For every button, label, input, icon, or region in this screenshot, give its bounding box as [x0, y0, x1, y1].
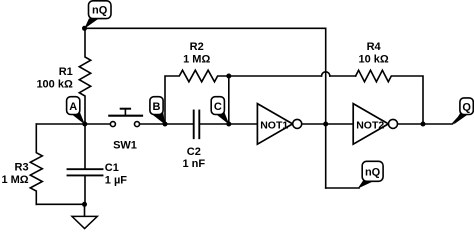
svg-text:C1: C1 [105, 162, 119, 174]
wire hop over nQ vertical [322, 72, 330, 76]
inverter U2 NOT2 [353, 104, 388, 145]
svg-text:1 µF: 1 µF [105, 174, 128, 186]
label C1 value [105, 162, 128, 186]
resistor R4 [356, 70, 423, 124]
svg-text:R4: R4 [367, 41, 382, 53]
svg-text:1 MΩ: 1 MΩ [1, 174, 28, 186]
node junction dot ground [82, 202, 87, 207]
wire A junction to switch [85, 123, 110, 125]
svg-text:nQ: nQ [92, 5, 108, 17]
svg-text:10 kΩ: 10 kΩ [358, 53, 388, 65]
svg-text:nQ: nQ [365, 166, 381, 178]
node A label [67, 97, 85, 125]
wire nQ net vertical right [325, 28, 327, 188]
svg-text:NOT1: NOT1 [260, 120, 288, 132]
node junction dot R4 output [421, 122, 426, 127]
svg-text:B: B [153, 101, 161, 113]
inverter U1 NOT1 [257, 104, 292, 145]
node junction dot B [163, 122, 168, 127]
svg-text:100 kΩ: 100 kΩ [36, 78, 73, 90]
label C2 value [182, 146, 205, 170]
wire C2 to NOT1 input [200, 123, 257, 125]
wire R3 bottom to ground junction [36, 203, 84, 205]
wire vertical C branch [228, 76, 230, 124]
ground [84, 204, 86, 216]
svg-text:1 nF: 1 nF [182, 158, 205, 170]
svg-text:R2: R2 [190, 41, 204, 53]
wire feedback C node to hop [229, 75, 322, 77]
capacitor C1 [84, 124, 86, 168]
wire nQ net bottom horizontal [326, 187, 359, 189]
wire top nQ net horizontal [85, 27, 326, 29]
node junction dot C [226, 122, 231, 127]
svg-text:NOT2: NOT2 [356, 120, 384, 132]
resistor R2 [165, 70, 229, 124]
svg-text:SW1: SW1 [113, 139, 137, 151]
svg-text:R1: R1 [59, 66, 73, 78]
node junction dot NOT1 output [323, 122, 328, 127]
svg-text:R3: R3 [15, 161, 29, 173]
wire A row left to R3 branch [36, 123, 85, 125]
wire switch to node B [140, 123, 166, 125]
svg-text:1 MΩ: 1 MΩ [183, 53, 210, 65]
label R2 value [183, 41, 210, 65]
switch SW1 [110, 122, 115, 127]
node B label [150, 97, 165, 125]
label R3 value [1, 161, 28, 186]
svg-text:A: A [69, 101, 77, 113]
wire hop to R4 [330, 75, 356, 77]
resistor R3 [30, 124, 42, 204]
node junction dot top nQ [82, 26, 87, 31]
node junction dot A [82, 122, 87, 127]
svg-text:C2: C2 [187, 146, 201, 158]
resistor R1 [79, 28, 90, 124]
svg-text:C: C [214, 101, 222, 113]
svg-text:Q: Q [462, 101, 471, 113]
node C label [211, 97, 229, 125]
wire NOT1 output to NOT2 input [302, 123, 353, 125]
node junction dot R2 right [226, 74, 231, 79]
wire node B to C2 [165, 123, 193, 125]
label R4 value [358, 41, 388, 65]
capacitor C2 [193, 111, 195, 139]
node nQ top label [84, 1, 111, 29]
wire NOT2 output to Q [398, 117, 459, 124]
node nQ bottom label [358, 161, 384, 188]
node Q label [454, 98, 474, 125]
label R1 value [36, 66, 73, 90]
